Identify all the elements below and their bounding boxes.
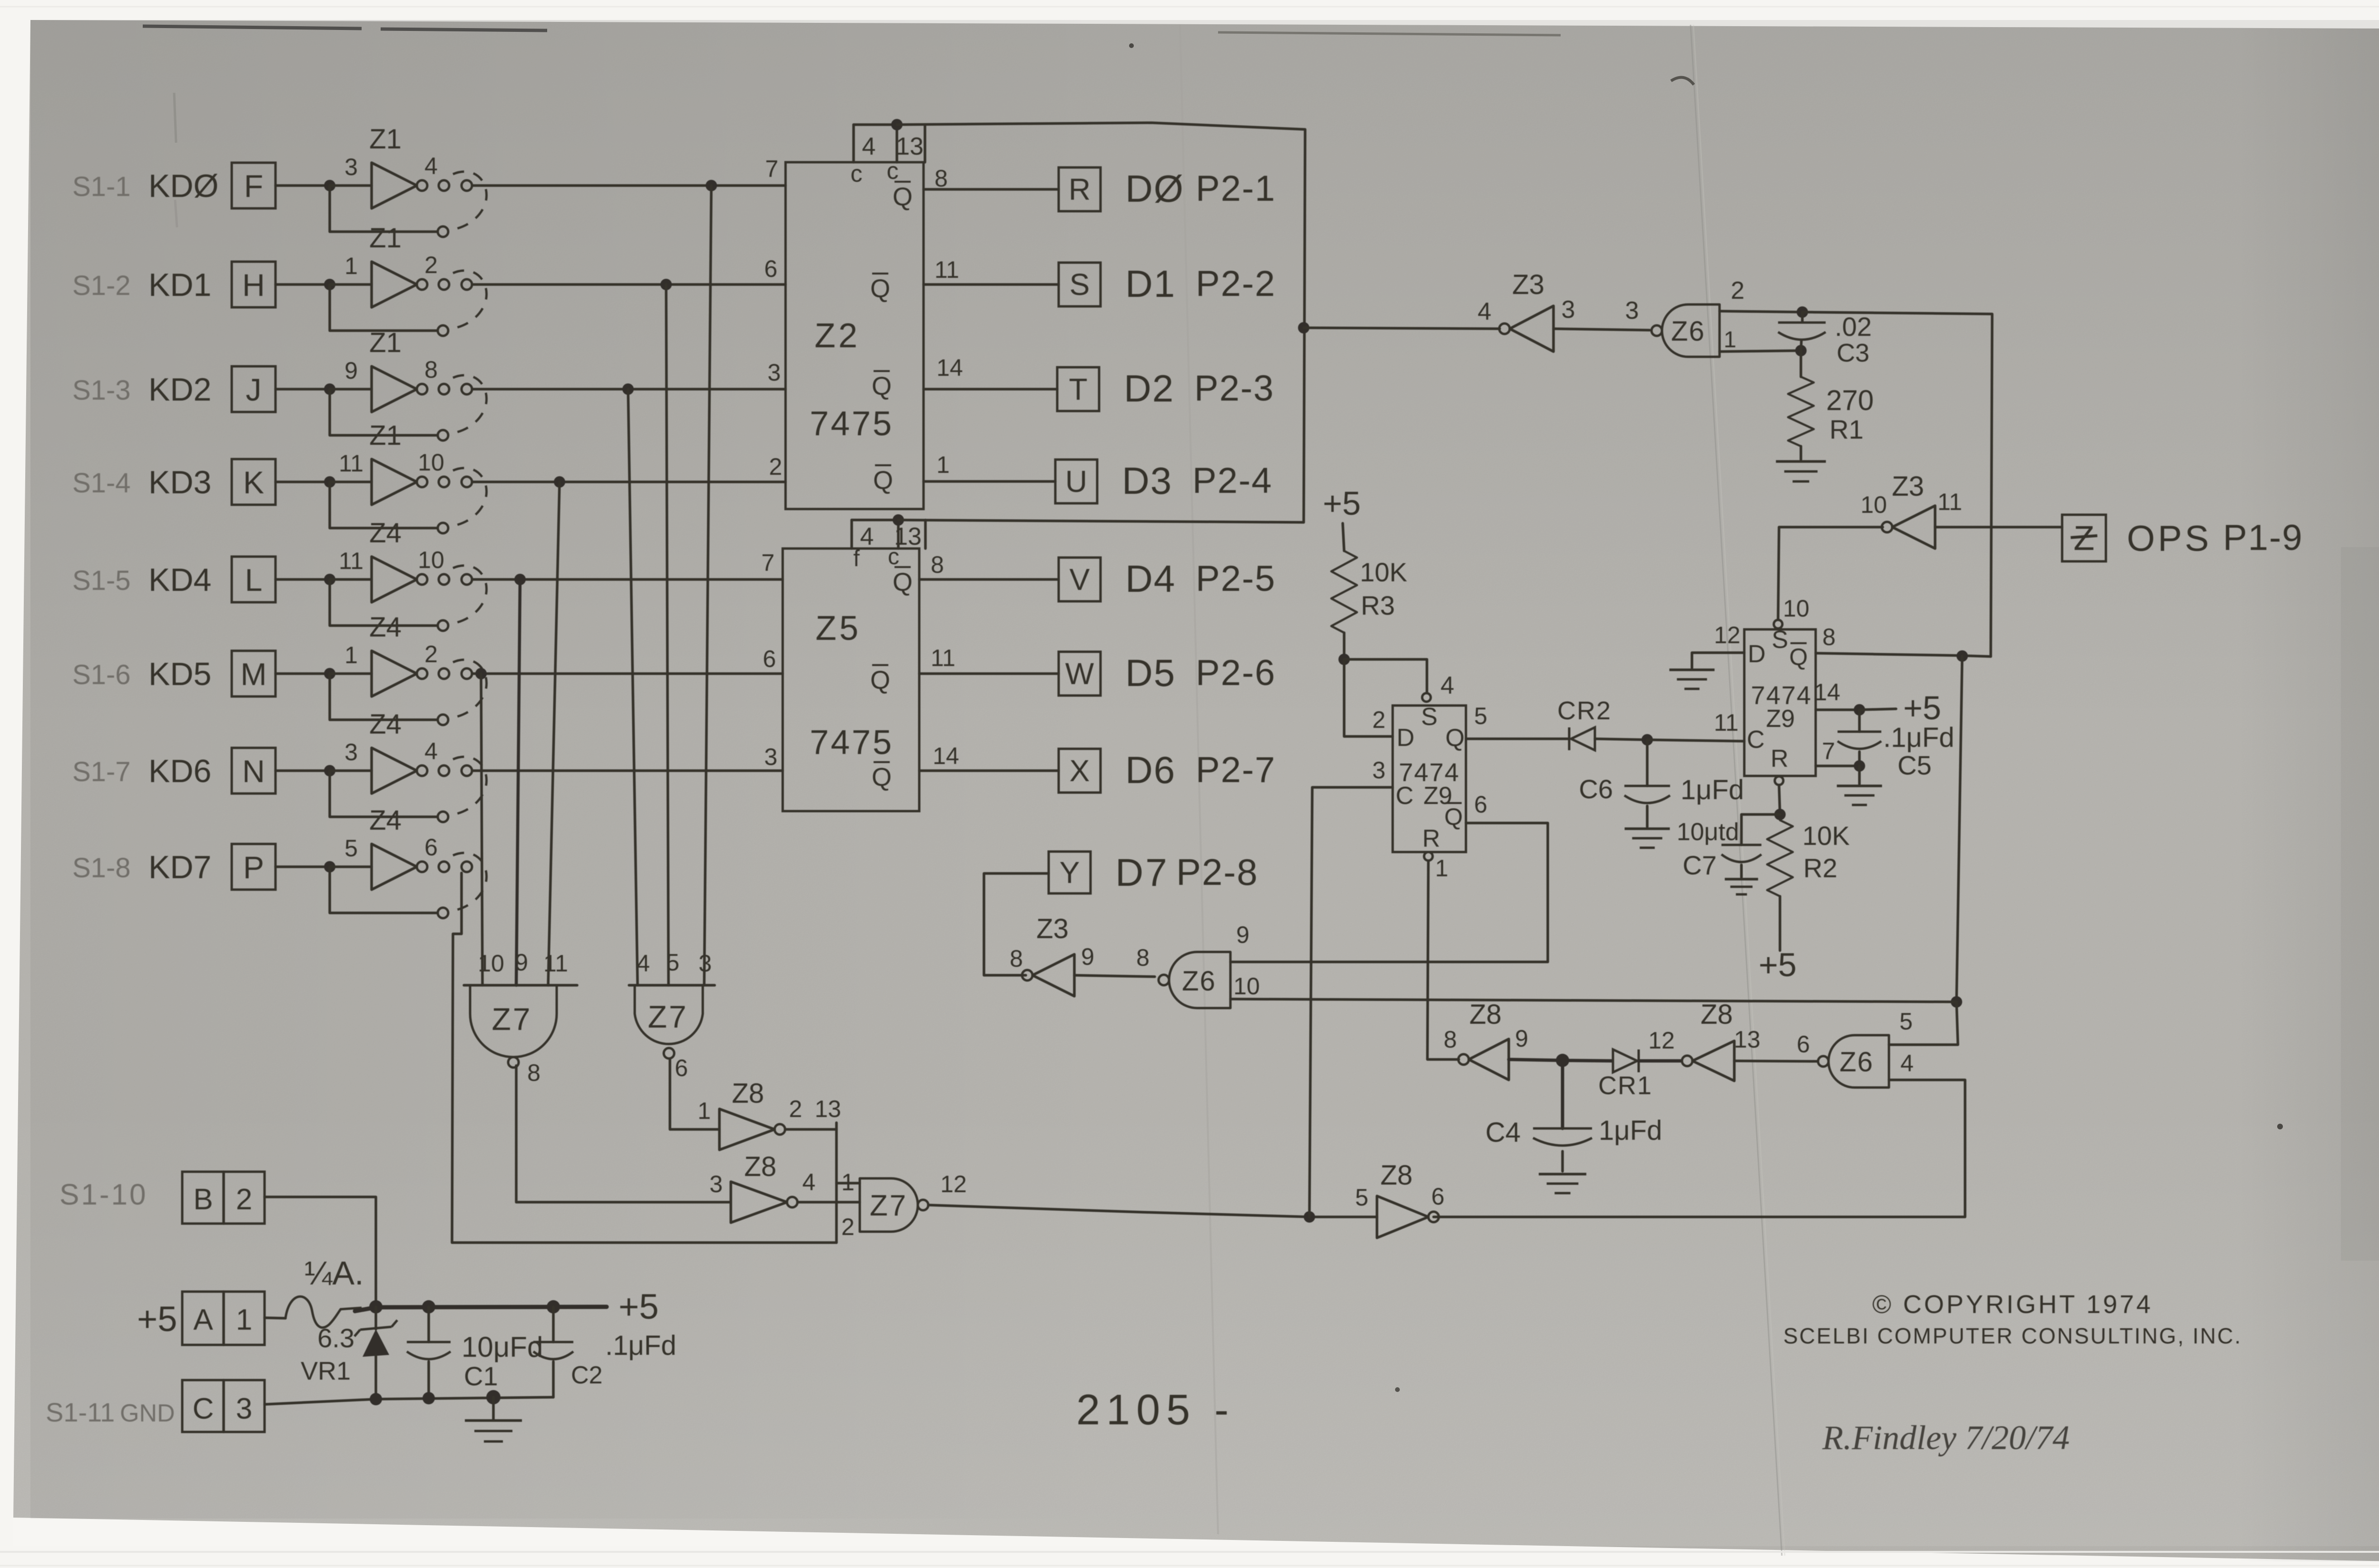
switch contact a row 7	[439, 765, 449, 776]
NAND Z7b (4,5,3 to 6)	[635, 985, 703, 1044]
svg-text:KD1: KD1	[148, 267, 211, 303]
flip-flop Z9a 7474 body	[1393, 706, 1466, 852]
svg-text:.02: .02	[1835, 312, 1872, 342]
svg-text:J: J	[246, 372, 262, 407]
svg-text:6.3: 6.3	[317, 1323, 354, 1353]
svg-text:Z4: Z4	[369, 709, 402, 740]
svg-text:Q: Q	[870, 666, 890, 695]
wire node to inverter Z1 input	[330, 480, 372, 483]
wire latch-enable loop	[897, 123, 1305, 522]
svg-text:5: 5	[1474, 703, 1487, 729]
wire Z6b out to Z3c in	[1074, 975, 1155, 977]
wire M to node	[275, 672, 330, 675]
svg-text:R: R	[1069, 172, 1091, 206]
svg-text:P2-1: P2-1	[1196, 168, 1276, 209]
svg-text:GND: GND	[120, 1400, 175, 1427]
connector box N (S1-7)	[232, 748, 275, 794]
svg-text:R1: R1	[1829, 414, 1864, 444]
svg-text:2: 2	[236, 1183, 252, 1216]
svg-text:3: 3	[764, 744, 777, 770]
node C3 top	[1797, 306, 1808, 318]
svg-text:9: 9	[515, 949, 528, 976]
node +5 rail C2	[547, 1300, 560, 1313]
svg-text:KD5: KD5	[148, 656, 211, 692]
svg-text:KD6: KD6	[148, 753, 211, 789]
zener diode VR1	[354, 1320, 397, 1336]
switch contact a row 3	[439, 384, 449, 394]
svg-text:P2-6: P2-6	[1196, 653, 1276, 693]
svg-text:1μFd: 1μFd	[1599, 1115, 1662, 1146]
svg-text:4: 4	[1441, 672, 1455, 699]
svg-text:KDØ: KDØ	[148, 168, 218, 204]
svg-text:14: 14	[936, 354, 963, 381]
switch contact b row 8	[462, 862, 472, 872]
node gnd symbol	[486, 1390, 501, 1404]
ground symbol (C7)	[1725, 878, 1758, 881]
svg-text:8: 8	[1136, 944, 1150, 971]
svg-text:D1: D1	[1125, 263, 1176, 305]
switch contact b row 7	[462, 765, 472, 776]
svg-text:Q: Q	[893, 183, 913, 211]
svg-text:V: V	[1070, 562, 1090, 597]
svg-text:2: 2	[424, 641, 438, 667]
connector box H (S1-2)	[232, 262, 275, 307]
wire node to inverter Z1 input	[330, 388, 372, 391]
Z5 clock strap box	[850, 520, 853, 549]
bypass contact row 3	[438, 430, 448, 441]
node bus pin10 wire	[1951, 996, 1962, 1008]
wire KD5 bus to Z7 pin 10	[481, 674, 482, 985]
svg-text:4: 4	[1900, 1050, 1914, 1077]
svg-text:Y: Y	[1060, 855, 1080, 890]
svg-text:10: 10	[478, 950, 504, 977]
svg-text:6: 6	[764, 255, 777, 282]
svg-text:5: 5	[1355, 1184, 1368, 1211]
wire L to node	[275, 578, 330, 581]
bypass wire row 5	[330, 579, 437, 626]
wire C3 to right bus	[1802, 312, 1992, 657]
svg-text:S: S	[1070, 267, 1090, 302]
switch contact b row 5	[462, 574, 472, 585]
switch contact b row 3	[462, 384, 472, 394]
svg-text:5: 5	[1899, 1008, 1913, 1035]
faint crease	[1180, 25, 1218, 1534]
speck mid	[1395, 1387, 1400, 1392]
svg-text:2: 2	[424, 252, 438, 278]
Z9b pin 1 reset bubble	[1775, 776, 1783, 785]
wire Z8d in from C4 node	[1509, 1059, 1563, 1060]
capacitor C7	[1721, 844, 1761, 846]
wire P to node	[275, 865, 330, 868]
svg-text:9: 9	[1236, 921, 1249, 948]
wire Q5 to CR2	[1466, 737, 1569, 740]
wire latch output to box U	[924, 480, 1055, 483]
inverter Z3b (11 to 10)	[1892, 506, 1935, 549]
svg-text:10: 10	[1233, 973, 1260, 1000]
NAND Z6b (9,10 to 8)	[1169, 952, 1230, 1008]
svg-text:L: L	[245, 562, 263, 598]
wire C3 to R1	[1799, 351, 1802, 377]
svg-text:270: 270	[1826, 384, 1874, 416]
wire Z6a pin 2 to C3	[1720, 311, 1802, 312]
node R3	[1338, 654, 1350, 665]
svg-text:2: 2	[1731, 277, 1745, 304]
wire Z3b out to S pin 10	[1778, 527, 1883, 620]
svg-text:11: 11	[339, 450, 364, 477]
connector box P (S1-8)	[232, 844, 275, 890]
switch contact a row 1	[439, 180, 449, 191]
wire C4 node to CR1	[1563, 1060, 1612, 1061]
capacitor C3	[1801, 312, 1804, 322]
connector box Y	[1049, 852, 1091, 893]
svg-text:Z8: Z8	[1469, 999, 1502, 1030]
svg-text:11: 11	[543, 950, 568, 977]
svg-text:12: 12	[940, 1171, 967, 1197]
wire node to S pin 4	[1344, 659, 1427, 693]
svg-text:Z1: Z1	[369, 327, 402, 358]
svg-text:4: 4	[424, 153, 438, 179]
node junction row 5	[324, 574, 335, 585]
svg-text:13: 13	[815, 1096, 841, 1122]
svg-text:8: 8	[1010, 945, 1023, 972]
svg-text:Z8: Z8	[744, 1151, 777, 1182]
svg-text:S1-3: S1-3	[72, 375, 131, 406]
paper shading right	[2236, 29, 2379, 1561]
svg-text:Z6: Z6	[1671, 316, 1705, 347]
node junction row 8	[324, 861, 335, 872]
bypass wire row 4	[330, 482, 437, 528]
Z7c input bus vertical	[835, 1123, 838, 1243]
inverter Z4 row 6 pin 1 to 2	[372, 651, 417, 696]
switch contact b row 2	[462, 279, 472, 290]
switch contact a row 2	[439, 279, 449, 290]
wire latch output to box W	[919, 672, 1059, 675]
bypass wire row 6	[330, 674, 437, 720]
svg-text:A: A	[193, 1303, 213, 1336]
switch contact b row 1	[462, 180, 472, 191]
wire KD1 bus to Z7 pin 5	[666, 284, 668, 985]
svg-text:12: 12	[1714, 622, 1740, 648]
wire Z8a out to pin13 bus	[785, 1128, 836, 1131]
capacitor C1	[427, 1307, 430, 1342]
svg-text:11: 11	[1937, 489, 1962, 515]
svg-text:D7: D7	[1115, 851, 1169, 894]
connector box V	[1059, 558, 1101, 601]
svg-text:Z8: Z8	[732, 1078, 764, 1109]
node KD2 column tap	[622, 383, 634, 395]
wire KD3 to Z2 pin 2	[472, 480, 786, 483]
svg-text:N: N	[242, 754, 265, 789]
svg-text:2: 2	[789, 1096, 802, 1122]
svg-text:M: M	[241, 657, 267, 692]
svg-text:S1-7: S1-7	[72, 756, 131, 787]
svg-text:D: D	[1748, 640, 1766, 668]
wire +5 stub (C5)	[1859, 709, 1896, 710]
ground symbol (Z9b D)	[1670, 668, 1715, 671]
right edge mottle	[2341, 547, 2379, 1261]
+5 rail	[355, 1307, 607, 1311]
wire node to inverter Z4 input	[330, 769, 372, 772]
svg-text:S1-10: S1-10	[59, 1178, 147, 1211]
resistor R2	[1767, 820, 1793, 896]
node pin7 C5	[1854, 760, 1865, 772]
svg-text:P2-2: P2-2	[1196, 264, 1276, 304]
wire node to inverter Z4 input	[330, 578, 372, 581]
wire Z7b output to Z8a input	[670, 1060, 719, 1129]
wire pin 7 to gnd	[1816, 764, 1859, 767]
NAND Z6c (5,4 to 6)	[1828, 1035, 1889, 1088]
svg-text:D6: D6	[1125, 749, 1176, 791]
inverter Z3c (9 to 8)	[1032, 954, 1074, 996]
svg-text:SCELBI COMPUTER CONSULTING,: SCELBI COMPUTER CONSULTING, INC.	[1783, 1323, 2242, 1348]
bypass contact row 4	[438, 523, 448, 533]
svg-text:2105 -: 2105 -	[1076, 1386, 1235, 1434]
svg-text:Z4: Z4	[369, 612, 402, 643]
svg-text:3: 3	[1562, 296, 1575, 323]
wire +5 to R3	[1343, 523, 1344, 551]
svg-text:R: R	[1422, 825, 1440, 853]
faint pencil mark 1	[174, 93, 176, 143]
wire KD3 bus to Z7 pin 11	[548, 482, 560, 985]
connector box M (S1-6)	[232, 651, 275, 696]
node Z2 clock	[891, 119, 903, 130]
svg-text:P: P	[243, 850, 264, 885]
svg-text:9: 9	[1081, 943, 1094, 970]
svg-text:14: 14	[1814, 679, 1840, 706]
svg-text:12: 12	[1648, 1027, 1675, 1054]
bypass wire row 2	[330, 284, 437, 331]
Z9a pin 1 reset bubble	[1424, 852, 1433, 861]
svg-text:Q: Q	[893, 568, 913, 597]
Z7a top bar	[464, 984, 577, 987]
svg-text:8: 8	[931, 551, 944, 578]
scanner edge mark 2	[1218, 32, 1561, 35]
scanner streak bottom 1	[0, 1551, 2379, 1553]
svg-text:Z9: Z9	[1766, 705, 1795, 733]
connector box U	[1055, 460, 1097, 503]
node Z5 clock	[893, 514, 904, 526]
wire K to node	[275, 480, 330, 483]
node junction row 7	[324, 765, 335, 776]
svg-text:+5: +5	[137, 1299, 177, 1339]
svg-text:B: B	[193, 1183, 213, 1216]
wire Qbar8 to bus	[1816, 653, 1991, 657]
connector box B-2	[182, 1172, 265, 1224]
diode CR1	[1613, 1049, 1637, 1072]
svg-text:2: 2	[841, 1214, 855, 1240]
svg-text:11: 11	[1714, 709, 1739, 736]
svg-text:10K: 10K	[1802, 821, 1850, 851]
svg-text:S1-8: S1-8	[72, 853, 131, 883]
bypass contact row 6	[438, 715, 448, 725]
wire Z7c out strobe line	[928, 1205, 1377, 1217]
svg-text:S: S	[1421, 703, 1438, 731]
faint pencil mark 2	[175, 200, 177, 227]
svg-text:4: 4	[860, 523, 874, 550]
NAND Z7a (10,9,11 to 8)	[470, 985, 557, 1057]
svg-text:W: W	[1065, 657, 1094, 691]
svg-text:R3: R3	[1361, 590, 1395, 620]
svg-text:C2: C2	[571, 1362, 602, 1389]
svg-text:Q: Q	[873, 466, 893, 495]
svg-text:C7: C7	[1682, 850, 1717, 880]
switch wiper dashed arc row 3	[453, 375, 487, 433]
wire node to C7	[1741, 814, 1780, 845]
inverter Z1 row 1 pin 3 to 4	[372, 163, 417, 208]
wire reset pin 1 to Z8d out	[1427, 861, 1459, 1059]
svg-text:D2: D2	[1124, 367, 1174, 410]
inverter Z8b (3 to 4)	[731, 1182, 787, 1223]
paper shading bottom	[13, 1094, 2379, 1546]
svg-text:+5: +5	[619, 1287, 659, 1326]
wire Z6a out to Z3a in	[1553, 329, 1650, 330]
node junction row 1	[324, 180, 335, 191]
wire KD4 to Z5 pin 7	[472, 578, 783, 581]
svg-text:11: 11	[931, 645, 955, 671]
wire R3 to node	[1343, 633, 1346, 659]
ground symbol (C4)	[1539, 1173, 1586, 1176]
svg-text:X: X	[1070, 754, 1090, 788]
svg-text:3: 3	[709, 1171, 723, 1197]
node junction row 2	[324, 279, 335, 290]
svg-text:7475: 7475	[810, 405, 894, 443]
svg-text:R2: R2	[1803, 853, 1838, 883]
node KD5 column tap	[475, 668, 487, 679]
svg-text:H: H	[242, 267, 265, 303]
inverter Z8d (9 to 8)	[1469, 1039, 1509, 1080]
svg-text:c: c	[887, 157, 899, 184]
svg-text:P2-8: P2-8	[1176, 851, 1258, 893]
wire node to inverter Z4 input	[330, 865, 372, 868]
Z5 pin 13 wire	[897, 520, 900, 549]
svg-text:3: 3	[767, 359, 781, 386]
svg-text:P2-5: P2-5	[1196, 559, 1276, 599]
wire node to D pin 2	[1344, 659, 1393, 736]
svg-text:Z4: Z4	[369, 805, 402, 836]
svg-text:4: 4	[637, 950, 650, 977]
svg-text:8: 8	[527, 1059, 541, 1086]
svg-text:D5: D5	[1125, 652, 1176, 694]
svg-text:3: 3	[1372, 757, 1386, 784]
svg-text:3: 3	[1625, 297, 1639, 324]
svg-text:T: T	[1069, 372, 1087, 406]
svg-text:KD3: KD3	[148, 464, 211, 500]
svg-text:VR1: VR1	[301, 1357, 351, 1385]
node C4 CR1	[1556, 1054, 1569, 1067]
wire R2 to +5	[1779, 896, 1781, 951]
svg-text:D3: D3	[1122, 460, 1172, 502]
wire KD7 down to Z7 pin 2	[452, 873, 836, 1243]
svg-text:P2-7: P2-7	[1196, 750, 1276, 790]
svg-text:4: 4	[424, 738, 438, 764]
svg-text:10: 10	[418, 449, 444, 476]
inverter Z4 row 8 pin 5 to 6	[372, 844, 417, 890]
svg-text:6: 6	[675, 1055, 688, 1081]
svg-text:Q: Q	[1789, 644, 1808, 670]
wire node to inverter Z1 input	[330, 283, 372, 286]
svg-text:© COPYRIGHT 1974: © COPYRIGHT 1974	[1872, 1290, 2153, 1319]
capacitor C5	[1858, 710, 1861, 732]
wire Z8b out to Z7c pin1	[797, 1201, 860, 1204]
wire KD5 to Z5 pin 6	[472, 672, 783, 675]
node pin14 C5	[1854, 704, 1865, 715]
wire latch output to box T	[924, 388, 1057, 391]
switch wiper dashed arc row 6	[453, 660, 487, 717]
inverter Z1 row 3 pin 9 to 8	[372, 366, 417, 412]
switch wiper dashed arc row 1	[453, 172, 487, 229]
wire KD6 to Z5 pin 3	[472, 769, 783, 772]
wire F to node	[275, 184, 330, 187]
wire Z6b pin 10 long line	[1230, 999, 1956, 1002]
node KD0 column tap	[706, 180, 717, 191]
wire latch output to box S	[924, 283, 1059, 286]
wire latch output to box V	[919, 578, 1059, 581]
svg-text:P2-3: P2-3	[1194, 368, 1275, 409]
svg-text:R.Findley 7/20/74: R.Findley 7/20/74	[1822, 1419, 2070, 1457]
svg-text:U: U	[1065, 464, 1087, 499]
ground rail wire	[265, 1397, 553, 1404]
ground symbol (C5)	[1858, 766, 1861, 784]
svg-text:Z1: Z1	[369, 124, 402, 155]
wire node to inverter Z4 input	[330, 672, 372, 675]
svg-text:S1-6: S1-6	[72, 659, 131, 690]
wire H to node	[275, 283, 330, 286]
svg-text:8: 8	[934, 165, 948, 192]
svg-text:10K: 10K	[1360, 557, 1407, 587]
wire Z8c out to Z6c pin4	[1434, 1080, 1965, 1217]
wire Qbar6 to Z6b pin 9	[1230, 823, 1548, 962]
svg-text:S1-1: S1-1	[72, 171, 131, 202]
ground symbol (C6)	[1625, 827, 1670, 830]
svg-text:1: 1	[936, 451, 950, 478]
svg-text:.1μFd: .1μFd	[1883, 722, 1954, 753]
wire Z3a out to latch loop	[1304, 328, 1500, 329]
inverter Z3a (3 to 4)	[1510, 306, 1553, 352]
wire latch output to box X	[919, 769, 1059, 772]
node junction row 4	[324, 476, 335, 488]
svg-text:CR2: CR2	[1557, 696, 1612, 725]
Z7b top bar	[629, 984, 715, 987]
svg-text:2: 2	[1372, 706, 1386, 733]
connector box Z OPS	[2062, 515, 2106, 561]
switch wiper dashed arc row 5	[453, 566, 487, 623]
svg-text:K: K	[243, 465, 264, 500]
connector box S	[1059, 263, 1101, 306]
svg-text:4: 4	[862, 133, 876, 160]
svg-text:2: 2	[769, 453, 782, 480]
svg-text:C3: C3	[1837, 339, 1869, 367]
svg-text:3: 3	[344, 154, 358, 180]
wire KD2 to Z2 pin 3	[472, 388, 786, 391]
svg-text:7475: 7475	[810, 724, 894, 762]
svg-text:6: 6	[1797, 1031, 1810, 1058]
svg-text:3: 3	[344, 739, 358, 765]
node CR2 C6	[1642, 734, 1653, 745]
capacitor C6	[1646, 740, 1649, 786]
wire latch output to box R	[924, 188, 1059, 191]
switch wiper dashed arc row 8	[453, 853, 487, 911]
svg-text:1: 1	[236, 1303, 252, 1336]
wire KD4 bus to Z7 pin 9	[516, 579, 520, 985]
Z9b pin 10 set bubble	[1774, 620, 1782, 628]
diode CR2	[1571, 727, 1595, 750]
svg-text:3: 3	[236, 1392, 252, 1425]
svg-text:10: 10	[1783, 595, 1809, 622]
wire to Z9b clock pin 11	[1647, 740, 1744, 741]
switch contact b row 4	[462, 477, 472, 487]
svg-text:7: 7	[1822, 738, 1835, 764]
svg-text:Q: Q	[872, 372, 892, 401]
